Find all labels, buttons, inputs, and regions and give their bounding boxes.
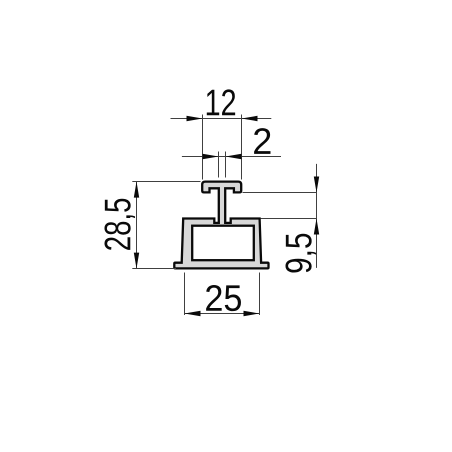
dimension 28,5: label text — [104, 199, 135, 250]
dimension 25: label text — [206, 285, 241, 311]
dimension 28,5: bottom arrow — [134, 253, 139, 269]
dimension 9,5: dimension line — [316, 164, 318, 268]
dimension 28,5: dimension line — [136, 182, 138, 269]
dimension 2: label text — [254, 128, 270, 154]
dimension 12: right arrow — [242, 116, 258, 121]
dimension 28,5: bottom extension line — [132, 268, 176, 270]
dimension 12: left arrow — [187, 116, 203, 121]
dimension 28,5: top arrow — [134, 182, 139, 198]
dimension 9,5: upper arrow — [314, 177, 319, 193]
dimension 12: right extension line — [241, 115, 243, 180]
dimension 25: left arrow — [185, 311, 201, 316]
dimension 9,5: label text — [285, 234, 316, 273]
dimension 25: left extension line — [184, 273, 186, 316]
dimension 25: right extension line — [259, 273, 261, 316]
dimension 2: left arrow — [203, 154, 219, 159]
dimension 9,5: lower arrow — [314, 219, 319, 235]
dimension 2: right arrow — [226, 154, 242, 159]
dimension 28,5: top extension line — [132, 181, 200, 183]
dimension 2: dimension line — [182, 156, 281, 158]
dimension 9,5: lower extension line — [261, 218, 317, 220]
dimension 12: left extension line — [202, 115, 204, 180]
profile inner cavity — [192, 226, 254, 261]
dimension 25: right arrow — [244, 311, 260, 316]
dimension 12: dimension line — [171, 118, 272, 120]
dimension 9,5: upper extension line — [243, 192, 317, 194]
dimension 12: label text — [207, 89, 235, 115]
profile cross-section body — [174, 182, 268, 269]
dimension 25: dimension line — [185, 313, 260, 315]
dimension 2: left extension line — [218, 152, 220, 178]
dimension 2: right extension line — [225, 152, 227, 178]
